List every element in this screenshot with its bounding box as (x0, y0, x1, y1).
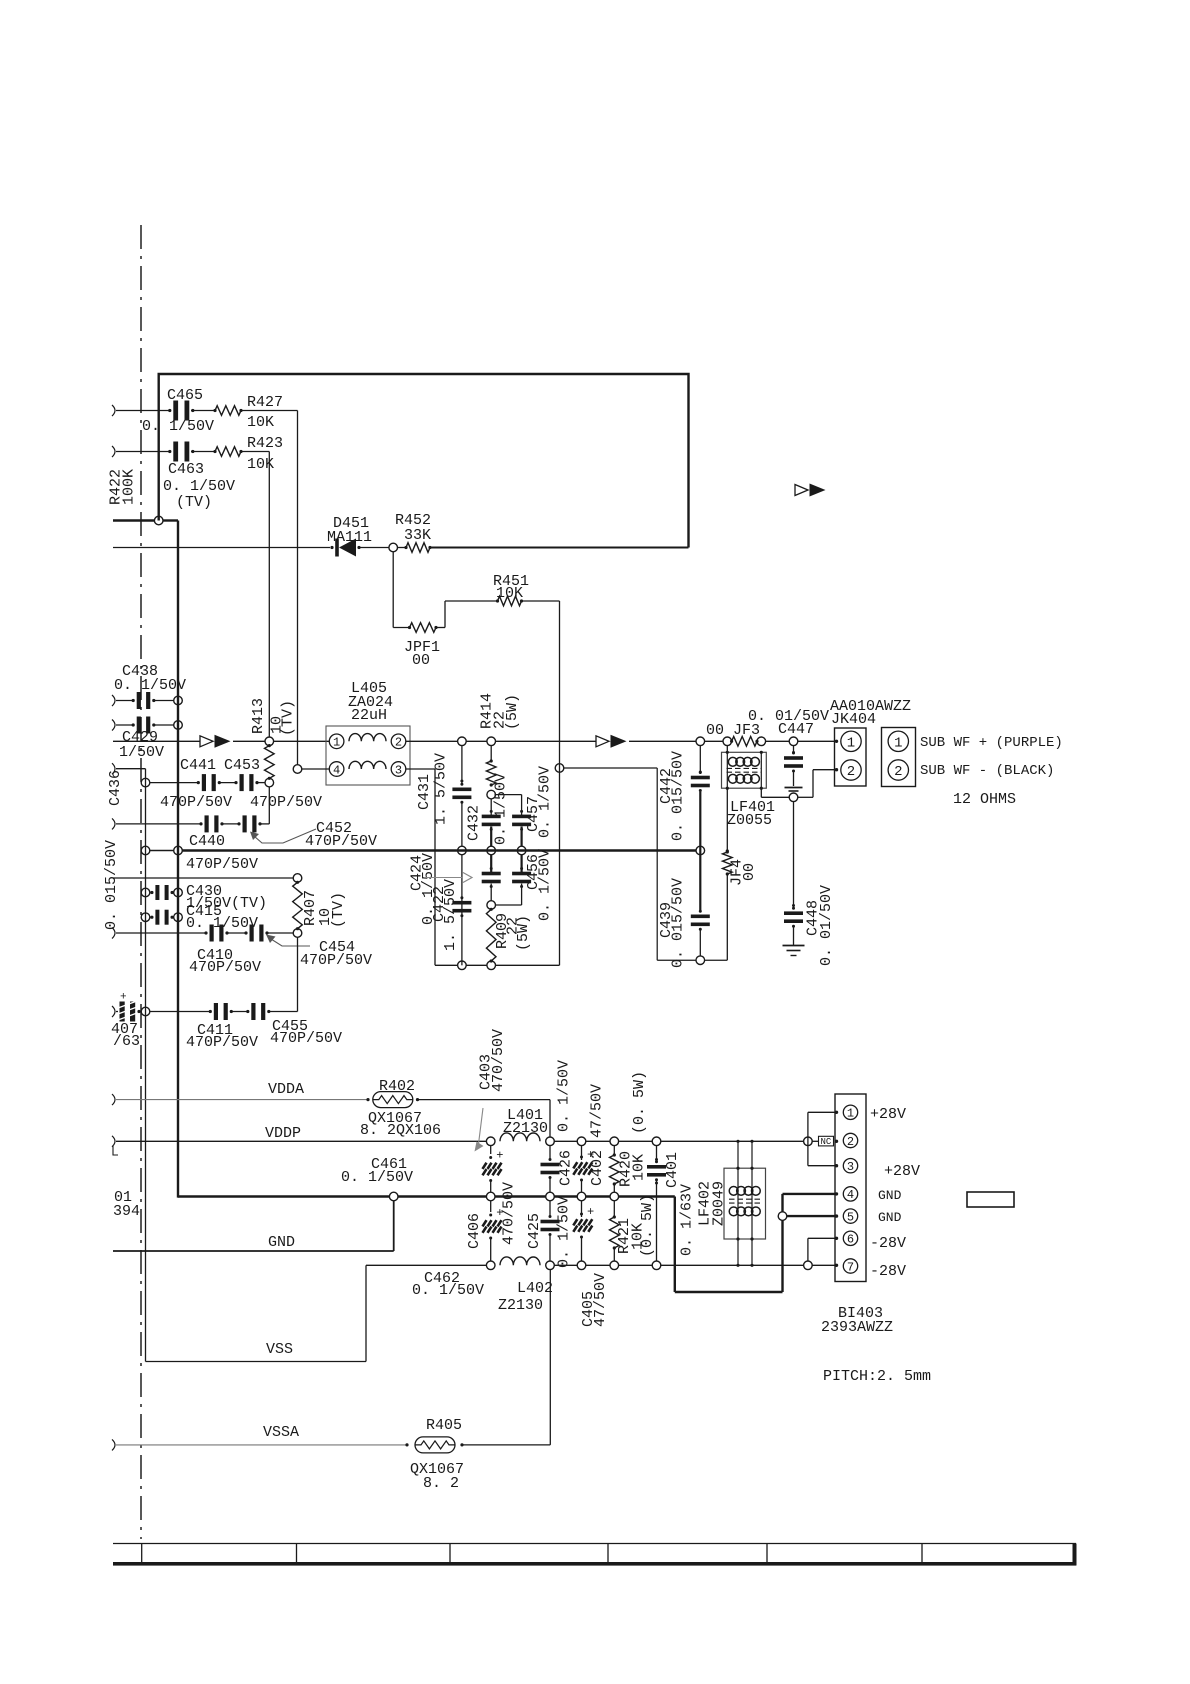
wire C407 row (112, 1006, 115, 1017)
junction node R413 top (265, 737, 274, 746)
C424 leader arrow (424, 877, 463, 879)
svg-text:4: 4 (847, 1188, 854, 1202)
resistor JF3 00 jumper (732, 737, 757, 747)
GND wire from left (113, 1250, 394, 1252)
svg-text:R405: R405 (426, 1417, 462, 1434)
svg-text:GND: GND (878, 1210, 902, 1225)
svg-text:(0. 5W): (0. 5W) (631, 1071, 648, 1134)
svg-text:470/50V: 470/50V (500, 1182, 517, 1245)
wire L405 pin2 to right (406, 740, 458, 742)
svg-text:470P/50V: 470P/50V (250, 794, 322, 811)
line filter LF402 Z0049 (724, 1168, 766, 1239)
node R407 top (293, 874, 302, 883)
filter column C402/C405 (581, 1146, 583, 1160)
node on thick row (696, 846, 705, 855)
svg-text:1. 5/50V: 1. 5/50V (432, 753, 449, 825)
R413 resistor vertical (265, 746, 275, 779)
title block table (113, 1543, 1076, 1545)
svg-text:SUB WF - (BLACK): SUB WF - (BLACK) (920, 763, 1054, 779)
svg-text:C453: C453 (224, 757, 260, 774)
node L401 left (486, 1137, 495, 1146)
capacitor C463 (173, 442, 178, 462)
node C422 bottom (458, 961, 467, 970)
svg-text:0. 015/50V: 0. 015/50V (669, 878, 686, 968)
wire pin6 bracket (807, 1238, 809, 1261)
svg-text:C465: C465 (167, 387, 203, 404)
svg-text:R413: R413 (250, 698, 267, 734)
svg-text:00: 00 (741, 863, 758, 881)
capacitor C456 (heavy stub) (520, 855, 522, 872)
svg-text:1: 1 (894, 735, 902, 751)
node circle at R452 (389, 543, 398, 552)
capacitor C442 (691, 776, 710, 780)
svg-text:/63: /63 (113, 1033, 140, 1050)
svg-text:47/50V: 47/50V (588, 1084, 605, 1138)
svg-text:00: 00 (412, 652, 430, 669)
svg-text:470P/50V: 470P/50V (270, 1030, 342, 1047)
wire to LF402 and NC node (661, 1140, 804, 1142)
node junction circle (154, 516, 163, 525)
wire from R451-line node to C442 column (555, 764, 564, 773)
svg-text:10K: 10K (247, 414, 274, 431)
svg-text:470P/50V: 470P/50V (305, 833, 377, 850)
svg-text:0. 1/50V: 0. 1/50V (555, 1196, 572, 1268)
wire R423 to vertical (241, 451, 269, 453)
node R409 top (487, 901, 496, 910)
svg-text:(TV): (TV) (279, 700, 296, 736)
resistor R414 22 5W (490, 746, 492, 761)
capacitor C448 (784, 911, 803, 915)
C452 callout leader (254, 829, 316, 843)
resistor R407 10 (TV) (293, 882, 303, 928)
wire C422 column (461, 855, 463, 966)
svg-text:0. 1/50V: 0. 1/50V (412, 1282, 484, 1299)
capacitor C432 (482, 815, 501, 819)
wire R451 down long vertical (522, 600, 560, 602)
wire R452 to box corner (430, 547, 689, 549)
wire C465 row (112, 405, 115, 416)
VSSA rail wire (112, 1439, 115, 1450)
line filter LF401 Z0055 (722, 752, 767, 788)
GND thick row continues (398, 1195, 486, 1197)
svg-text:+28V: +28V (884, 1163, 920, 1180)
wire C432 to thick row (heavy) (490, 827, 492, 847)
svg-text:C402: C402 (589, 1150, 606, 1186)
svg-text:2: 2 (847, 764, 855, 780)
svg-text:C432: C432 (465, 805, 482, 841)
svg-text:0. 01/50V: 0. 01/50V (818, 885, 835, 966)
svg-text:VSS: VSS (266, 1341, 293, 1358)
wire to JK404 pin1 (798, 740, 837, 742)
svg-text:+: + (120, 992, 127, 1004)
svg-text:(5W): (5W) (504, 694, 521, 730)
svg-text:3: 3 (395, 763, 402, 777)
wire C410 row (112, 928, 115, 939)
svg-text:-28V: -28V (870, 1263, 906, 1280)
small cut glyph (113, 1146, 118, 1155)
resistor R420 10K 0.5W (613, 1146, 615, 1155)
wire to earth ground (793, 927, 795, 945)
wire left stub row 768 (112, 763, 115, 774)
node R409 bottom (487, 961, 496, 970)
node C430 left (141, 888, 150, 897)
svg-text:8. 2: 8. 2 (423, 1475, 459, 1492)
wire LF401 bottom-left to JF4 (726, 788, 728, 852)
svg-text:+: + (496, 1149, 503, 1163)
svg-text:470P/50V: 470P/50V (300, 952, 372, 969)
node C442 top (696, 737, 705, 746)
svg-text:2: 2 (847, 1135, 854, 1149)
capacitor C410 (210, 925, 214, 942)
resistor R427 (215, 406, 241, 416)
svg-text:VSSA: VSSA (263, 1424, 299, 1441)
chassis ground symbol (785, 787, 803, 789)
svg-text:C425: C425 (526, 1213, 543, 1249)
top enclosure box (159, 374, 689, 548)
svg-text:C463: C463 (168, 461, 204, 478)
bottom loop wire of cluster (435, 964, 458, 966)
chassis boundary dash-dot line (140, 225, 142, 1539)
svg-text:R402: R402 (379, 1078, 415, 1095)
wire row 878 to R407 (113, 877, 293, 879)
svg-text:1: 1 (333, 736, 340, 750)
svg-text:L402: L402 (517, 1280, 553, 1297)
svg-text:0. 1/50V: 0. 1/50V (492, 773, 509, 845)
wire C448 column (793, 802, 795, 907)
node GND main (389, 1192, 398, 1201)
capacitor C422 (452, 901, 471, 905)
svg-text:1: 1 (847, 1107, 854, 1121)
svg-text:470P/50V: 470P/50V (186, 1034, 258, 1051)
svg-text:100K: 100K (120, 469, 137, 505)
svg-text:470P/50V: 470P/50V (160, 794, 232, 811)
wire C447 to chassis ground (793, 772, 795, 786)
resistor R451 (498, 596, 522, 606)
thick analog return row (182, 849, 696, 851)
wire C447 (793, 746, 795, 754)
svg-text:C401: C401 (664, 1152, 681, 1188)
resistor JF4 00 jumper (723, 852, 733, 874)
diode D451 MA111 (335, 539, 339, 557)
wire JPF1 to R451 (436, 627, 445, 629)
svg-text:2393AWZZ: 2393AWZZ (821, 1319, 893, 1336)
svg-text:1/50V: 1/50V (119, 744, 164, 761)
node L401 right / R402 join (546, 1137, 555, 1146)
svg-text:NC: NC (821, 1137, 832, 1147)
empty label box (967, 1192, 1014, 1207)
capacitor C430 (155, 885, 159, 900)
svg-text:C406: C406 (466, 1213, 483, 1249)
svg-text:12 OHMS: 12 OHMS (953, 791, 1016, 808)
svg-text:(5W): (5W) (515, 915, 532, 951)
svg-text:0. 1/50V: 0. 1/50V (114, 677, 186, 694)
node on thick bus (174, 846, 183, 855)
inductor L402 Z2130 (500, 1257, 540, 1265)
main wire continues (496, 740, 597, 742)
svg-text:8. 2QX106: 8. 2QX106 (360, 1122, 441, 1139)
wire C463 row (112, 446, 115, 457)
svg-text:C431: C431 (416, 774, 433, 810)
node C430 right (174, 888, 183, 897)
capacitor C415 (155, 910, 159, 925)
capacitor C441 (202, 774, 206, 791)
VSS wire (146, 1361, 367, 1363)
svg-text:C441: C441 (180, 757, 216, 774)
wire C457 to thick row (heavy) (520, 827, 522, 847)
capacitor C452 (243, 815, 247, 832)
jack legend box (882, 728, 916, 787)
wire L405 pin3 to loop (406, 768, 435, 770)
node pin7 side (804, 1261, 813, 1270)
svg-text:Z2130: Z2130 (498, 1297, 543, 1314)
svg-text:22uH: 22uH (351, 707, 387, 724)
svg-text:0. 015/50V: 0. 015/50V (103, 840, 120, 930)
svg-text:(TV): (TV) (176, 494, 212, 511)
svg-text:394: 394 (113, 1203, 140, 1220)
svg-text:470/50V: 470/50V (490, 1029, 507, 1092)
wire LF401 left vertical (726, 746, 728, 753)
svg-text:(0. 5W): (0. 5W) (639, 1194, 656, 1257)
capacitor C439 (691, 915, 710, 919)
chassis node circle (789, 793, 798, 802)
wire JPF1 branch (392, 552, 394, 628)
node on bus (174, 721, 183, 730)
heavy wire C442 to C439 (699, 792, 701, 912)
svg-text:VDDP: VDDP (265, 1125, 301, 1142)
svg-text:10K: 10K (247, 456, 274, 473)
capacitor C455 (251, 1003, 255, 1020)
resistor R402 QX1067 8.2 (373, 1092, 413, 1108)
resistor R405 QX1067 8.2 (415, 1437, 455, 1453)
svg-text:0. 1/50V: 0. 1/50V (420, 853, 437, 925)
capacitor C438 (137, 692, 141, 709)
node JF3 left (723, 737, 732, 746)
svg-text:+: + (587, 1205, 594, 1219)
node R413 bottom (265, 778, 274, 787)
NC tag (819, 1136, 834, 1146)
svg-text:Z0055: Z0055 (727, 812, 772, 829)
node on thin line (141, 778, 150, 787)
svg-text:47/50V: 47/50V (592, 1273, 609, 1327)
wire pin1/pin3 bracket (807, 1112, 809, 1165)
signal flow arrow 2 (596, 736, 609, 747)
capacitor C440 (205, 815, 209, 832)
svg-text:GND: GND (878, 1188, 902, 1203)
node on thin line (141, 1007, 150, 1016)
connector JK404 AA010AWZZ (835, 728, 867, 786)
svg-text:Z0049: Z0049 (710, 1181, 727, 1226)
C403 leader arrow (479, 1108, 484, 1144)
svg-text:R423: R423 (247, 435, 283, 452)
capacitor C407 polarized (120, 1002, 125, 1022)
long thick vertical bus x=178 (177, 521, 179, 1198)
wire C456 to corner joining R409 node (521, 884, 523, 905)
svg-text:C447: C447 (778, 721, 814, 738)
wire JF4 to bottom node (726, 874, 728, 960)
node NC bracket (804, 1137, 813, 1146)
svg-text:0. 1/50V: 0. 1/50V (555, 1060, 572, 1132)
svg-text:Z2130: Z2130 (503, 1120, 548, 1137)
capacitor C401 0.1/63V (656, 1146, 658, 1161)
node on thin line (141, 846, 150, 855)
node C447 top (789, 737, 798, 746)
VDDA rail wire (112, 1094, 115, 1105)
wire R427 to vertical (241, 410, 298, 412)
svg-text:VDDA: VDDA (268, 1081, 304, 1098)
node C439 bottom (696, 956, 705, 965)
filter column C403/C406 (490, 1146, 492, 1154)
svg-text:7: 7 (847, 1260, 854, 1274)
capacitor C411 (214, 1003, 218, 1020)
node C457 bottom (517, 846, 526, 855)
C454 callout leader (271, 939, 310, 946)
capacitor C424 (heavy stub from row) (490, 855, 492, 872)
resistor R452 (398, 547, 407, 549)
svg-text:2: 2 (395, 736, 402, 750)
node C415 right (174, 913, 183, 922)
resistor R423 (215, 447, 241, 457)
wire node to C457 column (496, 794, 522, 796)
wire C440 row (112, 818, 115, 829)
svg-text:0. 1/50V: 0. 1/50V (163, 478, 235, 495)
svg-text:C436: C436 (107, 770, 124, 806)
svg-text:C440: C440 (189, 833, 225, 850)
wire R402 to VDDP node (418, 1099, 551, 1101)
connector BI403 2393AWZZ (835, 1094, 866, 1282)
svg-text:MA111: MA111 (327, 529, 372, 546)
wire C429 row (112, 720, 115, 731)
GND thick route to pin4/5 (674, 1197, 676, 1293)
wire thick row to R422 node (113, 519, 154, 521)
svg-text:R427: R427 (247, 394, 283, 411)
capacitor C465 (173, 401, 178, 421)
svg-text:-28V: -28V (870, 1235, 906, 1252)
svg-text:SUB WF + (PURPLE): SUB WF + (PURPLE) (920, 735, 1063, 751)
svg-text:1. 5/50V: 1. 5/50V (442, 879, 459, 951)
svg-text:0. 1/50V: 0. 1/50V (142, 418, 214, 435)
node C432 bottom (487, 846, 496, 855)
svg-text:4: 4 (333, 763, 340, 777)
wire C439 bottom (699, 931, 701, 956)
svg-text:0. 1/50V: 0. 1/50V (536, 849, 553, 921)
svg-text:+28V: +28V (870, 1106, 906, 1123)
node JF3 right (757, 737, 766, 746)
node C431 bottom on thick row (458, 846, 467, 855)
wire LF401 bottom-right to jack return (760, 788, 762, 797)
svg-text:1: 1 (847, 735, 855, 751)
bottom supply row -28V (366, 1264, 486, 1266)
capacitor C431 (452, 788, 471, 792)
svg-text:JK404: JK404 (831, 711, 876, 728)
svg-text:0. 1/63V: 0. 1/63V (678, 1184, 695, 1256)
svg-text:0. 1/50V: 0. 1/50V (341, 1169, 413, 1186)
earth ground symbol (783, 945, 805, 947)
capacitor C453 (240, 774, 244, 791)
signal flow arrow (200, 736, 213, 747)
free arrow marker (795, 485, 808, 496)
resistor JPF1 (410, 623, 437, 633)
svg-text:10K: 10K (496, 585, 523, 602)
inductor L401 Z2130 (500, 1133, 540, 1141)
node R414 top (487, 737, 496, 746)
filter column C426/C425 (549, 1146, 551, 1160)
svg-text:5: 5 (847, 1210, 854, 1224)
main signal wire from left (113, 740, 200, 742)
wire C431 column top (461, 746, 463, 783)
wire to corner up R407 (268, 1011, 298, 1013)
svg-text:0. 015/50V: 0. 015/50V (669, 751, 686, 841)
svg-text:GND: GND (268, 1234, 295, 1251)
wire D451 row (113, 547, 330, 549)
VDDP rail wire (112, 1136, 115, 1147)
thin vertical line x=145.5 (145, 769, 147, 1362)
wire R427-vert to L405 pin4 (293, 765, 302, 774)
svg-text:(TV): (TV) (330, 892, 347, 928)
svg-text:0. 1/50V: 0. 1/50V (536, 766, 553, 838)
node R407 bottom (293, 929, 302, 938)
svg-text:10K: 10K (630, 1154, 647, 1181)
capacitor C447 (784, 756, 803, 760)
svg-text:PITCH:2. 5mm: PITCH:2. 5mm (823, 1368, 931, 1385)
wire R405 up to -28V row (462, 1444, 550, 1446)
VDDP rail continues (554, 1140, 577, 1142)
node on bus (174, 696, 183, 705)
capacitor C429 (137, 717, 141, 734)
resistor R421 10K 0.5W (613, 1201, 615, 1217)
wire C431 to thick row (461, 804, 463, 847)
GND thick corner to node (178, 1195, 389, 1197)
capacitor C454 (250, 925, 254, 942)
inductor L405 ZA024 22uH (326, 726, 410, 785)
wire C438 row (112, 695, 115, 706)
wire R414 node down to C432 (490, 799, 492, 818)
wire C442 top (699, 746, 701, 774)
svg-text:33K: 33K (404, 527, 431, 544)
node C415 left (141, 913, 150, 922)
node under R414 (487, 790, 496, 799)
svg-text:2: 2 (894, 764, 902, 780)
node C431 top (458, 737, 467, 746)
svg-text:6: 6 (847, 1233, 854, 1247)
capacitor C457 (512, 815, 531, 819)
svg-text:3: 3 (847, 1160, 854, 1174)
svg-text:470P/50V: 470P/50V (189, 959, 261, 976)
resistor R409 22 5W (486, 909, 496, 961)
svg-text:C426: C426 (557, 1150, 574, 1186)
wire C424 down to node (490, 884, 492, 901)
svg-text:470P/50V: 470P/50V (186, 856, 258, 873)
